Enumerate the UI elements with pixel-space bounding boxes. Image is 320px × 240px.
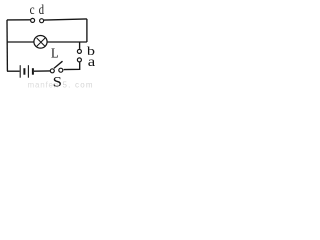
wire: battery to switch xyxy=(34,70,50,72)
wire: left vertical xyxy=(6,20,8,71)
switch S lever xyxy=(54,61,63,68)
terminal c xyxy=(31,18,35,22)
terminal a xyxy=(77,58,81,62)
wire: right vertical xyxy=(86,19,88,42)
wire: top right segment xyxy=(44,19,87,20)
wire: lamp branch right xyxy=(47,41,87,43)
wire: a down and left to switch xyxy=(64,62,80,69)
svg-text:a: a xyxy=(88,54,96,69)
lamp L xyxy=(34,35,47,48)
svg-text:d: d xyxy=(39,1,45,17)
battery: long plate 1 xyxy=(19,65,21,78)
terminal d xyxy=(40,19,44,23)
svg-text:L: L xyxy=(51,45,59,61)
switch S right terminal xyxy=(59,68,63,72)
wire: top left segment xyxy=(7,19,30,21)
battery: short plate 2 xyxy=(32,68,34,75)
svg-text:S: S xyxy=(53,74,62,89)
battery: short plate 1 xyxy=(23,68,25,75)
wire: left to battery xyxy=(7,70,20,72)
svg-text:5. com: 5. com xyxy=(63,80,94,89)
svg-text:c: c xyxy=(30,2,35,17)
battery: long plate 2 xyxy=(27,65,29,78)
switch S left terminal xyxy=(50,69,54,73)
wire: lamp branch left xyxy=(7,41,34,43)
wire: stub to b xyxy=(79,42,81,49)
terminal b xyxy=(77,49,81,53)
